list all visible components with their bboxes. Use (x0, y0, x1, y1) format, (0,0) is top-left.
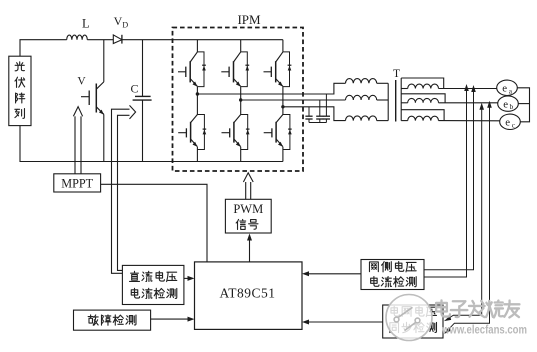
svg-text:www.elecfans.com: www.elecfans.com (441, 324, 527, 336)
svg-text:D: D (122, 21, 128, 30)
svg-text:AT89C51: AT89C51 (219, 286, 275, 301)
svg-text:e: e (505, 117, 510, 129)
svg-text:MPPT: MPPT (61, 177, 93, 191)
svg-text:T: T (393, 68, 400, 80)
svg-text:b: b (510, 102, 514, 111)
svg-text:IPM: IPM (237, 12, 261, 27)
svg-text:C: C (130, 82, 138, 96)
svg-text:PWM: PWM (233, 202, 263, 216)
svg-text:V: V (114, 14, 123, 28)
svg-text:V: V (77, 76, 86, 88)
svg-text:e: e (503, 98, 508, 110)
svg-text:L: L (82, 17, 90, 31)
svg-text:e: e (502, 83, 507, 95)
